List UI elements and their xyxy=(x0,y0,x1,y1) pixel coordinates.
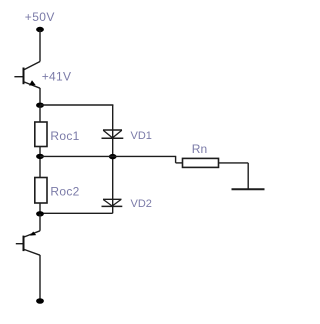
svg-text:+50V: +50V xyxy=(25,10,55,24)
transistor Q1 base lead xyxy=(14,76,22,78)
svg-text:Roc2: Roc2 xyxy=(50,185,79,199)
svg-text:Rn: Rn xyxy=(192,142,207,156)
diode VD2 top bar (anode) xyxy=(103,198,122,200)
wire jog down to Rn xyxy=(175,156,177,163)
wire diode branch vertical xyxy=(112,105,114,213)
node Roc1/Roc2 junction dot xyxy=(36,154,44,159)
wire jog to Rn left terminal xyxy=(176,162,183,164)
transistor Q1 emitter diagonal xyxy=(24,82,40,88)
transistor Q2 base lead xyxy=(16,243,23,245)
resistor Roc1 xyxy=(35,122,47,147)
wire Q2 collector down to bottom dot xyxy=(39,255,41,299)
svg-text:Roc1: Roc1 xyxy=(50,129,79,143)
wire +50V dot to Q1 collector xyxy=(39,30,41,62)
node bottom terminal dot xyxy=(36,298,44,304)
diode VD1 triangle sides xyxy=(103,130,122,138)
diode VD1 cathode bar xyxy=(102,137,124,139)
transistor Q1 emitter arrow xyxy=(29,80,36,85)
resistor Rn xyxy=(183,158,219,167)
node Q1 emitter / Roc1 top dot xyxy=(36,103,44,108)
node VD1/VD2 junction dot xyxy=(109,154,117,159)
diode VD2 cathode bar xyxy=(102,205,123,207)
svg-text:+41V: +41V xyxy=(42,70,72,84)
node +50V terminal dot xyxy=(36,27,44,32)
node Roc2/VD2/Q2 junction dot xyxy=(36,211,44,216)
wire Q1 emitter down to node xyxy=(39,88,41,103)
transistor Q2 base bar xyxy=(23,236,25,252)
diode VD2 triangle sides xyxy=(103,200,121,207)
transistor Q2 emitter arrow xyxy=(30,232,36,236)
wire down to ground xyxy=(247,163,249,189)
wire Rn right terminal xyxy=(219,162,249,164)
wire Roc2 bottom to lower node xyxy=(39,203,41,214)
diode VD1 top bar (anode) xyxy=(103,129,122,131)
svg-text:VD2: VD2 xyxy=(131,198,152,210)
wire node to Roc1 top xyxy=(39,106,41,123)
transistor Q1 base bar xyxy=(23,68,25,85)
wire Roc1 bottom to mid node xyxy=(39,147,41,178)
transistor Q1 (top, collector diagonal) xyxy=(24,62,40,70)
resistor Roc2 xyxy=(35,178,47,204)
wire top horizontal node to VD1 branch xyxy=(40,104,113,106)
wire node down to Q2 emitter xyxy=(39,214,41,231)
transistor Q2 (bottom, emitter diagonal) xyxy=(24,231,40,237)
wire bottom horizontal VD2 to node xyxy=(40,212,113,214)
ground bar xyxy=(232,188,265,190)
transistor Q2 collector diagonal xyxy=(24,249,40,255)
wire mid horizontal output line xyxy=(40,155,176,157)
svg-text:VD1: VD1 xyxy=(131,130,152,142)
